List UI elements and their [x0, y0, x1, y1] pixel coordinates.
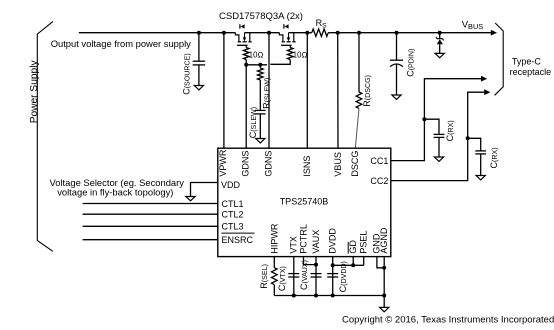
- pin GD with overbar: [348, 240, 358, 254]
- label voltage selector note: [50, 177, 185, 198]
- svg-text:CTL3: CTL3: [222, 222, 244, 232]
- pin CTL3: [222, 222, 244, 232]
- label C(VAUX): [299, 260, 309, 290]
- wire VBUS pin: [337, 33, 339, 149]
- svg-text:10Ω: 10Ω: [293, 50, 308, 59]
- svg-text:C(SLEW): C(SLEW): [248, 107, 258, 138]
- transistor Q1: [235, 33, 251, 48]
- svg-text:VBUS: VBUS: [333, 152, 343, 177]
- wire CTL3: [83, 225, 218, 227]
- wire CTL1: [83, 203, 218, 205]
- label copyright: [342, 315, 554, 326]
- svg-text:VAUX: VAUX: [311, 230, 321, 254]
- node C(VTX) rail junction: [292, 294, 296, 298]
- node VPWR tap: [222, 31, 226, 35]
- wire GD lead: [352, 257, 354, 266]
- node PCTRL-VAUX junction: [314, 263, 318, 267]
- svg-text:AGND: AGND: [379, 227, 389, 254]
- node AGND rail junction: [382, 294, 386, 298]
- svg-text:VPWR: VPWR: [218, 149, 228, 177]
- wire CSLEW to ground: [259, 114, 261, 139]
- wire ISNS: [306, 33, 308, 149]
- svg-text:GDNS: GDNS: [241, 151, 251, 177]
- ground below C(PDIN): [392, 95, 401, 99]
- svg-text:ENSRC: ENSRC: [222, 235, 254, 245]
- svg-text:VBUS: VBUS: [462, 20, 484, 31]
- capacitor C(PDIN) polarized: [390, 60, 403, 66]
- wire gate1 to RSLEW: [246, 64, 267, 66]
- wire C(PDIN) upper lead: [396, 33, 398, 61]
- wire zener upper lead: [439, 33, 441, 39]
- label C(VTX): [277, 266, 287, 291]
- capacitor C(SOURCE): [193, 61, 206, 65]
- resistor R(DSCG): [356, 92, 362, 108]
- pin VTX: [289, 236, 299, 254]
- resistor R(SEL): [272, 268, 278, 285]
- label 10ohm: [249, 50, 264, 59]
- node GD junction: [351, 263, 355, 267]
- op-amp U1 TPS25740B box: [218, 148, 391, 256]
- svg-text:CSD17578Q3A (2x): CSD17578Q3A (2x): [219, 11, 303, 22]
- svg-text:CC2: CC2: [370, 176, 388, 186]
- pin CC1: [370, 156, 388, 166]
- node zener tap: [438, 31, 442, 35]
- svg-text:R(SLEW): R(SLEW): [262, 78, 272, 109]
- resistor R(SLEW): [258, 68, 264, 80]
- node GND-AGND junction: [382, 266, 386, 270]
- wire PSEL lead: [363, 257, 365, 266]
- capacitor C(DVDD): [327, 274, 338, 277]
- wire GND jog: [377, 257, 384, 268]
- svg-text:VDD: VDD: [221, 180, 241, 190]
- wire RSLEW lead: [259, 65, 261, 68]
- wire bottom ground rail: [274, 295, 384, 297]
- resistor RS: [312, 29, 328, 36]
- wire VDD: [191, 183, 218, 197]
- wire mid node to GDNS2 pin: [268, 33, 270, 149]
- node C(PDIN) tap: [395, 31, 399, 35]
- wire HIPWR lead: [273, 257, 275, 268]
- svg-text:receptacle: receptacle: [510, 67, 552, 77]
- wire C(RX)2 branch: [468, 138, 481, 151]
- label output voltage note: [51, 38, 191, 49]
- svg-text:TPS25740B: TPS25740B: [280, 197, 329, 207]
- label R(SEL): [259, 264, 269, 289]
- node C(SOURCE) tap: [197, 31, 201, 35]
- svg-text:PCTRL: PCTRL: [298, 224, 308, 254]
- resistor 10ohm gate of Q2: [287, 48, 293, 60]
- svg-text:C(VAUX): C(VAUX): [299, 260, 309, 290]
- node C(VAUX) rail junction: [314, 294, 318, 298]
- svg-text:C(VTX): C(VTX): [277, 266, 287, 291]
- label Power Supply: [29, 60, 40, 124]
- svg-text:CTL1: CTL1: [222, 199, 244, 209]
- wire gate2 to GDNS line: [270, 60, 290, 65]
- svg-text:DVDD: DVDD: [328, 228, 338, 254]
- power supply bracket: [37, 21, 53, 251]
- pin CTL2: [222, 210, 244, 220]
- arrow VBUS to receptacle: [491, 30, 497, 36]
- svg-text:C(RX): C(RX): [489, 147, 499, 168]
- wire ENSRC: [83, 239, 218, 241]
- label C(DVDD): [338, 261, 348, 292]
- capacitor C(RX)2: [475, 151, 486, 154]
- capacitor C(VAUX): [311, 274, 322, 277]
- wire rail FET2 to RS: [289, 32, 312, 34]
- pin ISNS: [302, 156, 312, 177]
- pin VBUS: [333, 152, 343, 177]
- label VBUS: [462, 20, 484, 31]
- svg-text:Power Supply: Power Supply: [29, 60, 40, 124]
- label R(SLEW): [262, 78, 272, 109]
- svg-text:C(RX): C(RX): [445, 120, 455, 141]
- wire DVDD lead: [332, 257, 334, 296]
- wire R(DSCG) upper lead: [358, 33, 360, 92]
- pin VAUX: [311, 230, 321, 254]
- wire gate1 to GDNS pin: [245, 60, 247, 149]
- node R(DSCG) tap: [357, 31, 361, 35]
- capacitor C(RX)1: [434, 134, 445, 137]
- pin CTL1: [222, 199, 244, 209]
- node C(RX)2 tap: [466, 136, 470, 140]
- label C(SOURCE): [181, 53, 191, 95]
- body diode of Q1: [240, 24, 245, 29]
- ground main: [380, 307, 389, 311]
- pin PCTRL: [298, 224, 308, 254]
- svg-text:C(SOURCE): C(SOURCE): [181, 53, 191, 95]
- node C(DVDD) rail junction: [331, 294, 335, 298]
- transistor Q2: [279, 33, 295, 48]
- svg-text:10Ω: 10Ω: [249, 50, 264, 59]
- node C(RX)1 tap: [422, 117, 426, 121]
- ground below zener: [435, 53, 444, 57]
- wire CTL2: [83, 213, 218, 215]
- pin PSEL: [359, 231, 369, 254]
- capacitor C(VTX): [288, 274, 299, 277]
- svg-text:GDNS: GDNS: [264, 151, 274, 177]
- label TPS25740B: [280, 197, 329, 207]
- wire C(RX)1 branch: [424, 119, 439, 134]
- svg-text:Copyright © 2016, Texas Instru: Copyright © 2016, Texas Instruments Inco…: [342, 315, 554, 326]
- pin HIPWR: [269, 223, 279, 253]
- capacitor C(SLEW): [255, 110, 265, 114]
- label R(DSCG): [362, 75, 372, 107]
- wire RSEL to rail: [273, 285, 275, 296]
- node RSLEW tap: [258, 63, 262, 67]
- arrow VDD down: [186, 197, 195, 201]
- svg-text:GD: GD: [348, 240, 358, 254]
- node mid-FET tap: [267, 31, 271, 35]
- pin DSCG: [350, 151, 360, 177]
- wire CC2: [391, 92, 485, 180]
- node VBUS tap: [336, 31, 340, 35]
- pin GDNS 1: [241, 151, 251, 177]
- label C(PDIN): [406, 49, 416, 77]
- wire AGND lead: [383, 257, 385, 296]
- svg-text:RS: RS: [316, 18, 328, 29]
- arrow CC2: [484, 89, 490, 95]
- wire RSLEW to CSLEW: [259, 80, 261, 110]
- wire R(DSCG) to DSCG pin: [355, 108, 359, 148]
- ground below C(RX)1: [434, 157, 443, 161]
- svg-text:VTX: VTX: [289, 236, 299, 254]
- pin VDD: [221, 180, 241, 190]
- label RS: [316, 18, 328, 29]
- wire C(RX)1 lower lead: [438, 137, 440, 157]
- zener diode D1: [436, 37, 444, 44]
- pin AGND: [379, 227, 389, 254]
- label 10ohm: [293, 50, 308, 59]
- label Type-C receptacle: [510, 56, 552, 77]
- svg-text:Output voltage from power supp: Output voltage from power supply: [51, 38, 191, 49]
- wire C(RX)2 lower lead: [480, 154, 482, 176]
- svg-text:DSCG: DSCG: [350, 151, 360, 177]
- type-C receptacle bracket: [495, 23, 504, 95]
- svg-text:PSEL: PSEL: [359, 231, 369, 254]
- pin VPWR: [218, 149, 228, 177]
- node gate1 junction: [244, 63, 248, 67]
- svg-text:CTL2: CTL2: [222, 210, 244, 220]
- pin DVDD: [328, 228, 338, 254]
- label C(RX)2: [489, 147, 499, 168]
- pin GDNS 2: [264, 151, 274, 177]
- node ISNS tap: [305, 31, 309, 35]
- body diode of Q2: [284, 24, 289, 29]
- wire C(PDIN) lower lead: [396, 65, 398, 95]
- wire rail RS to VBUS arrow: [328, 32, 492, 34]
- wire AGND to ground: [383, 296, 385, 308]
- label C(SLEW): [248, 107, 258, 138]
- label CSD17578Q3A (2x): [219, 11, 303, 22]
- svg-text:CC1: CC1: [370, 156, 388, 166]
- pin ENSRC with overbar: [222, 233, 255, 245]
- ground below C(SLEW): [256, 139, 265, 143]
- node DVDD junction: [331, 263, 335, 267]
- svg-text:C(PDIN): C(PDIN): [406, 49, 416, 77]
- wire C(SOURCE) lead: [198, 33, 200, 86]
- wire PCTRL jog: [304, 257, 317, 265]
- svg-text:HIPWR: HIPWR: [269, 223, 279, 253]
- wire rail between FETs: [245, 32, 280, 34]
- svg-text:ISNS: ISNS: [302, 156, 312, 177]
- wire VPWR rail segment: [79, 32, 236, 34]
- ground below C(RX)2: [476, 176, 485, 180]
- wire CC1: [391, 79, 482, 161]
- wire VAUX lead: [315, 257, 317, 296]
- pin CC2: [370, 176, 388, 186]
- label C(RX)1: [445, 120, 455, 141]
- pin GND: [372, 233, 382, 254]
- wire DVDD to PSEL: [333, 264, 364, 266]
- svg-text:R(SEL): R(SEL): [259, 264, 269, 289]
- svg-text:voltage in fly-back topology): voltage in fly-back topology): [57, 187, 173, 198]
- ground below C(SOURCE): [194, 86, 203, 90]
- svg-text:R(DSCG): R(DSCG): [362, 75, 372, 107]
- wire VPWR: [223, 33, 225, 149]
- resistor 10ohm gate of Q1: [243, 48, 249, 60]
- wire VTX lead: [293, 257, 295, 296]
- arrow CC1: [481, 76, 487, 82]
- wire zener lower lead: [439, 44, 441, 53]
- svg-text:Type-C: Type-C: [512, 56, 542, 66]
